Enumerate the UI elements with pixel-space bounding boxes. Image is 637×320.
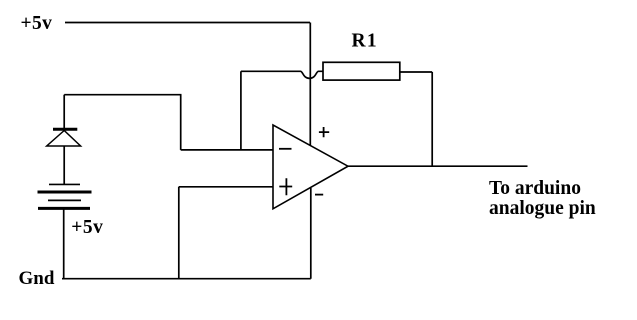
op-amp non-inverting input marker + bbox=[279, 178, 292, 195]
svg-text:analogue pin: analogue pin bbox=[489, 198, 596, 219]
battery B1 plate long bottom bbox=[38, 207, 90, 210]
battery B1 plate long upper bbox=[38, 191, 92, 194]
wire: feedback vertical to inverting input bbox=[240, 71, 242, 150]
wire: battery negative to ground rail bbox=[63, 210, 65, 279]
op-amp V- supply marker - bbox=[315, 194, 323, 196]
wire: non-inverting input horizontal bbox=[179, 186, 273, 188]
wire: diode cathode lead bbox=[63, 95, 65, 129]
wire: ground rail bbox=[62, 278, 311, 280]
resistor R1 bbox=[323, 62, 400, 80]
svg-text:Gnd: Gnd bbox=[19, 268, 55, 289]
wire: inverting input horizontal bbox=[181, 149, 273, 151]
wire: non-inverting input to ground vertical bbox=[178, 187, 180, 279]
svg-text:+5v: +5v bbox=[21, 13, 53, 34]
wire: op-amp V- pin to ground bbox=[310, 188, 312, 279]
svg-text:+5v: +5v bbox=[71, 217, 103, 238]
diode D1 triangle bbox=[47, 131, 81, 147]
wire: diode node vertical bbox=[180, 95, 182, 150]
svg-text:R1: R1 bbox=[352, 31, 378, 52]
wire: diode node horizontal bbox=[64, 94, 181, 96]
op-amp U1 triangle bbox=[273, 125, 348, 209]
wire: R1 to output vertical bbox=[431, 72, 433, 166]
wire: diode anode to battery bbox=[63, 146, 65, 184]
diode D1 cathode bar bbox=[53, 128, 77, 131]
wire: +5v vertical drop to op-amp V+ pin bbox=[309, 23, 311, 146]
battery B1 plate short top bbox=[49, 183, 80, 185]
wire: +5v top rail bbox=[65, 22, 310, 24]
svg-text:To arduino: To arduino bbox=[489, 178, 581, 199]
op-amp inverting input marker - bbox=[279, 148, 292, 150]
wire: output to arduino bbox=[348, 165, 528, 167]
battery B1 plate short lower bbox=[48, 199, 81, 201]
wire: feedback horizontal with hop over +5v wire bbox=[241, 71, 323, 78]
wire: R1 right lead bbox=[400, 71, 432, 73]
op-amp V+ supply marker + bbox=[319, 127, 329, 137]
